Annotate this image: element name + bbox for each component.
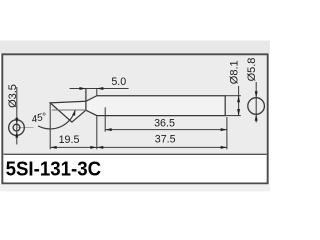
svg-text:36.5: 36.5 — [154, 117, 175, 129]
svg-text:Ø3.5: Ø3.5 — [7, 84, 19, 108]
svg-text:Ø5.8: Ø5.8 — [246, 58, 258, 82]
svg-text:19.5: 19.5 — [59, 134, 80, 146]
svg-text:37.5: 37.5 — [155, 134, 176, 146]
svg-text:Ø8.1: Ø8.1 — [228, 60, 240, 84]
svg-text:5SI-131-3C: 5SI-131-3C — [6, 157, 102, 180]
svg-text:5.0: 5.0 — [111, 76, 126, 88]
